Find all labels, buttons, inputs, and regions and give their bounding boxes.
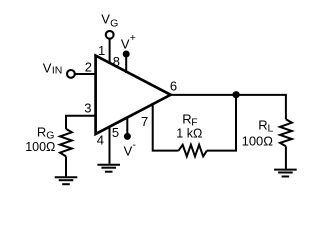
svg-text:R: R: [182, 112, 191, 127]
ground (RL): [274, 170, 297, 177]
junction node dot: [233, 91, 240, 98]
svg-text:R: R: [258, 118, 267, 133]
svg-text:100Ω: 100Ω: [25, 140, 55, 154]
svg-text:8: 8: [113, 54, 120, 69]
wire pin4: [109, 126, 111, 164]
terminal circle VG: [106, 31, 114, 39]
wire pin7: [153, 103, 179, 151]
svg-text:3: 3: [84, 100, 91, 115]
svg-text:2: 2: [85, 59, 92, 74]
dot V- pin5: [124, 133, 131, 140]
ground (RG): [55, 177, 78, 184]
svg-text:+: +: [130, 32, 136, 44]
wire pin5 V-: [126, 117, 128, 136]
resistor RF 1k: [179, 145, 207, 157]
svg-text:5: 5: [112, 125, 119, 140]
svg-text:V: V: [121, 37, 130, 52]
svg-text:1 kΩ: 1 kΩ: [176, 127, 202, 141]
svg-text:R: R: [37, 125, 46, 140]
wire pin1 VG: [109, 39, 111, 65]
resistor RL: [280, 119, 292, 146]
wire pin2 VIN: [75, 73, 97, 75]
svg-text:V: V: [124, 144, 133, 159]
terminal circle VIN: [67, 70, 75, 78]
svg-text:100Ω: 100Ω: [242, 133, 274, 148]
wire RF to node: [207, 96, 236, 151]
svg-text:7: 7: [141, 114, 148, 129]
svg-text:V: V: [101, 11, 110, 26]
svg-text:6: 6: [170, 79, 177, 94]
svg-text:V: V: [43, 61, 52, 76]
wire RG to ground: [65, 156, 67, 176]
svg-text:G: G: [110, 17, 118, 29]
wire RL to ground: [285, 146, 287, 168]
svg-text:-: -: [132, 139, 136, 151]
wire output pin6: [168, 95, 286, 119]
svg-text:1: 1: [98, 43, 105, 58]
ground (pin4): [97, 165, 120, 172]
wire pin3: [66, 116, 97, 129]
dot V+: [123, 51, 130, 58]
resistor RG: [60, 129, 72, 157]
svg-text:IN: IN: [52, 65, 63, 77]
op-amp U1: [96, 56, 171, 134]
wire pin8 V+: [125, 54, 127, 73]
svg-text:4: 4: [97, 133, 104, 148]
